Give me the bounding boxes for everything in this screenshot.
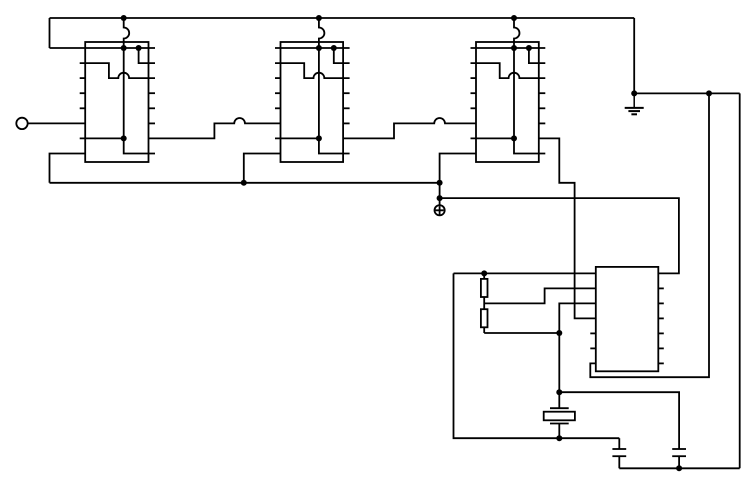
wire U1 pin 7 to U2 pin 6 (hop) (149, 118, 281, 138)
junction node XA / C2 branch (556, 389, 562, 395)
junction U1 pin-1 row / clock wire (121, 45, 127, 51)
resistor R1 (481, 273, 488, 309)
wire U3 clock feed from top rail (hop) to pin 8 (514, 18, 545, 154)
junction bottom rail / U2 pin 8 (241, 180, 247, 186)
input terminal J1 (16, 118, 27, 129)
junction node XA / R2 (556, 330, 562, 336)
junction crystal bottom / node XB (556, 435, 562, 441)
wire U1 pin-1 loop to top rail (49, 18, 51, 48)
wire VCC to U4 right pin 1 (440, 198, 679, 273)
IC U4 left pin stubs (590, 333, 596, 348)
wire R1/R2 node to U4 left pin 2 (484, 288, 596, 303)
capacitor C1 (612, 438, 626, 468)
wire U3 pin-1 to right pin 2 (529, 48, 545, 63)
IC U3 right pin stubs (539, 93, 546, 123)
IC U1 body (85, 42, 148, 162)
wire node XA to U4 left pin 3 and crystal top (559, 303, 596, 408)
wire U2 clock feed from top rail (hop) to pin 8 (319, 18, 350, 154)
junction U2 pin-7 row / clock wire (316, 135, 322, 141)
junction ground node (631, 90, 637, 96)
IC U1 right pin stubs (149, 93, 156, 123)
resistor R2 (481, 309, 488, 333)
junction C2 / bottom ground rail (676, 465, 682, 471)
junction U3 pin-7 row / clock wire (511, 135, 517, 141)
junction node XB / R1 top (481, 270, 487, 276)
wire ground branch to U4 left pin 7 (590, 93, 709, 377)
ground symbol (625, 93, 644, 114)
junction ground rail / MCU ground branch (706, 90, 712, 96)
wire U3 left pin 7 to internal node (471, 137, 515, 139)
wire U1 clock feed from top rail (hop) to pin 8 (124, 18, 155, 154)
junction U3 pin-1 row / pin-2 wire (526, 45, 532, 51)
IC U4 body (596, 267, 659, 371)
wire ground rail (634, 92, 740, 94)
wire U3 pin 7 to U4 left pin 4 (539, 138, 596, 318)
crystal Y1 (544, 408, 575, 438)
wire U2 pin 7 to U3 pin 6 (hop) (343, 118, 476, 138)
wire node XB to U4 left pin 1 (454, 272, 596, 274)
wire bottom rail (50, 182, 440, 184)
IC U1 left pin stubs (80, 78, 86, 108)
IC U2 left pin stubs (275, 78, 281, 108)
wire U2 pin 8 down to bottom rail (244, 154, 281, 183)
wire U2 pin-1 to right pin 2 (334, 48, 350, 63)
junction top rail / U3 feed (511, 15, 517, 21)
wire U1 left pin 7 to internal node (80, 137, 124, 139)
IC U3 body (476, 42, 539, 162)
IC U3 left pin stubs (471, 78, 477, 108)
wire U1 left pin 2 to right pin 3 (hop) (80, 63, 155, 78)
wire U2 left pin 7 to internal node (275, 137, 319, 139)
IC U2 body (281, 42, 344, 162)
wire U3 left pin 2 to right pin 3 (hop) (471, 63, 546, 78)
IC U4 right pin stubs (658, 288, 664, 363)
capacitor C2 (672, 449, 686, 468)
wire node XB left loop to crystal bottom (454, 273, 620, 438)
junction top rail / U1 feed (121, 15, 127, 21)
junction U2 pin-1 row / clock wire (316, 45, 322, 51)
junction U3 pin-1 row / clock wire (511, 45, 517, 51)
wire U1 pin-1 to right pin 2 (139, 48, 155, 63)
junction power vertical / VCC wire (437, 195, 443, 201)
power supply symbol +V (435, 205, 445, 215)
wire U1 pin 8 down to bottom rail (50, 154, 86, 183)
IC U3 pin-1 row wire (471, 47, 546, 49)
wire top rail down to ground node (633, 18, 635, 93)
wire R2 bottom to crystal node XA (484, 332, 559, 334)
junction U1 pin-1 row / pin-2 wire (136, 45, 142, 51)
wire U3 pin 8 down to power symbol (440, 154, 476, 206)
junction top rail / U2 feed (316, 15, 322, 21)
IC U2 pin-1 row wire (275, 47, 350, 49)
IC U1 pin-1 row wire (50, 47, 156, 49)
wire input terminal to U1 pin 6 (28, 122, 85, 124)
wire top supply rail (50, 17, 635, 19)
wire ground rail down right side (739, 93, 741, 468)
wire bottom ground rail (619, 467, 739, 469)
wire U2 left pin 2 to right pin 3 (hop) (275, 63, 350, 78)
wire node XA to capacitor C2 (559, 392, 679, 449)
IC U2 right pin stubs (343, 93, 350, 123)
junction U1 pin-7 row / clock wire (121, 135, 127, 141)
junction bottom rail / power vertical (437, 180, 443, 186)
junction U2 pin-1 row / pin-2 wire (331, 45, 337, 51)
